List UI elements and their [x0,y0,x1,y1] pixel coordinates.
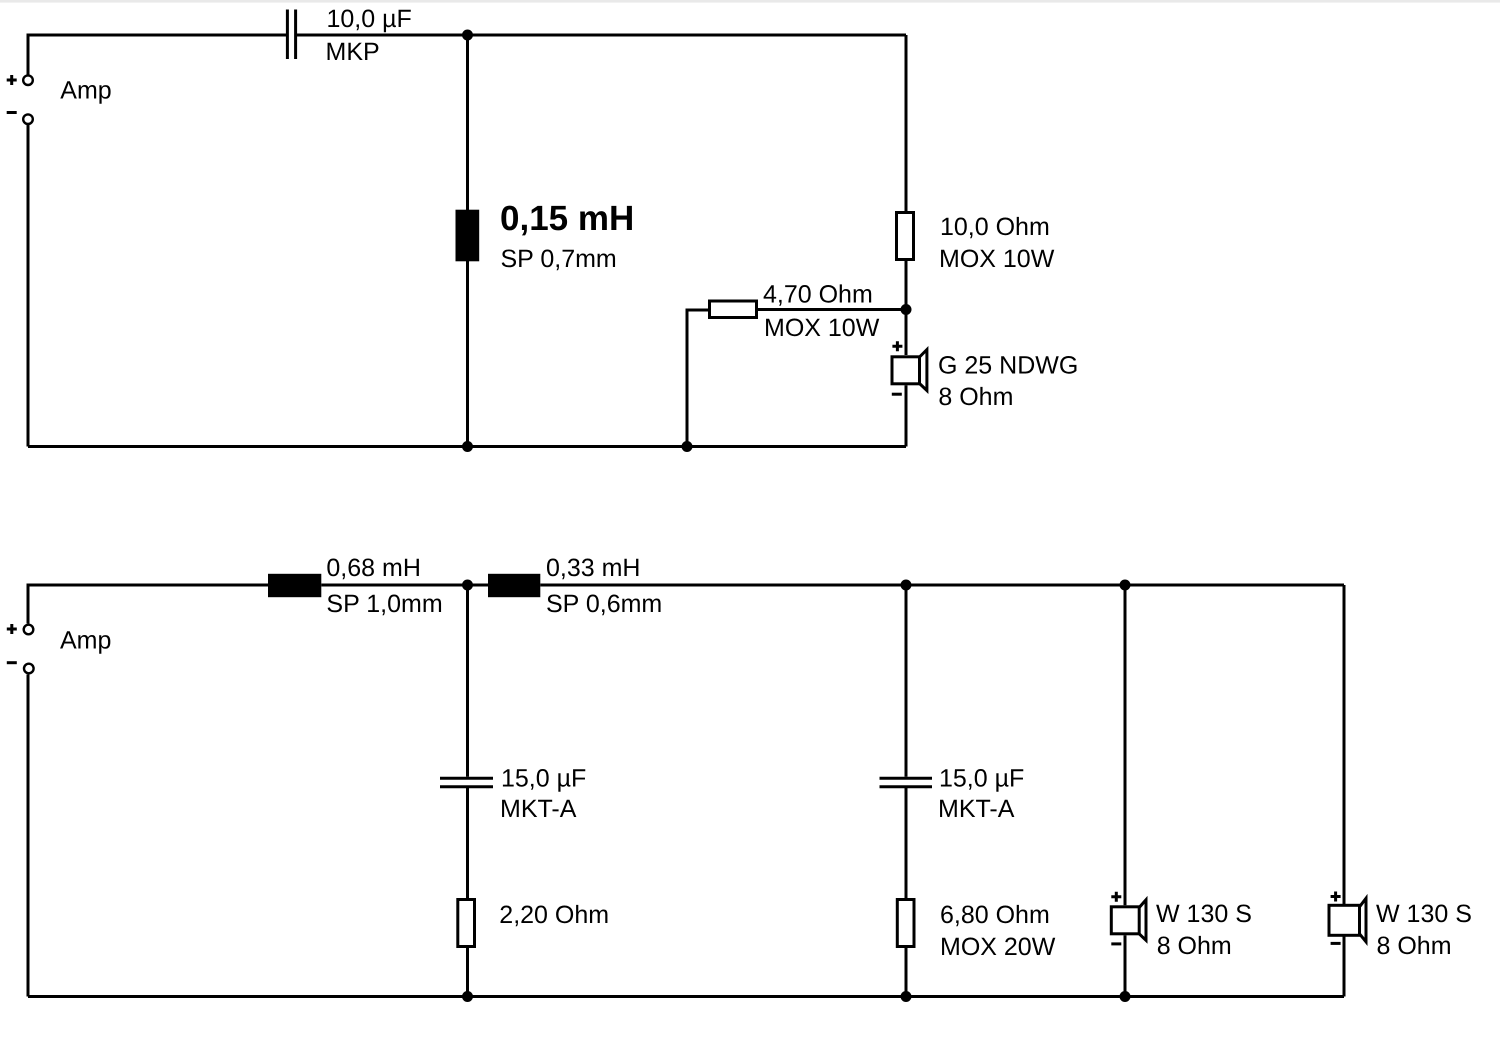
speaker LS3 W 130 S [1329,898,1366,942]
inductor L3 body [488,574,540,597]
svg-text:Amp: Amp [60,77,111,105]
Amp label (top circuit) [60,77,111,105]
wire bottom rail (bottom circuit) [28,995,1344,998]
svg-text:8 Ohm: 8 Ohm [938,383,1013,411]
speaker LS1 minus polarity mark [892,393,902,396]
svg-text:MOX 10W: MOX 10W [939,245,1055,273]
speaker LS1 G 25 NDWG [892,350,927,391]
wire left vertical (bottom circuit) [27,675,30,997]
Amp label (bottom circuit) [60,626,111,654]
wire top-left horizontal (amp + to capacitor C1) [28,35,286,75]
wire R3 to bottom rail [466,948,469,997]
svg-text:SP 1,0mm: SP 1,0mm [326,590,442,618]
resistor R4 body [897,900,914,947]
amp negative terminal (bottom circuit) [7,663,34,674]
R1 value label 10,0 Ohm MOX 10W [939,213,1055,273]
svg-text:SP 0,6mm: SP 0,6mm [546,590,662,618]
speaker LS3 minus polarity mark [1331,942,1341,945]
L3 value label 0,33 mH SP 0,6mm [546,554,662,618]
wire L3 to right end of top rail [540,584,1344,587]
svg-text:8 Ohm: 8 Ohm [1157,932,1232,960]
svg-text:0,15 mH: 0,15 mH [500,199,634,238]
wire right vertical (top rail to speaker LS3) [1343,585,1346,905]
wire C2 to resistor R3 [466,788,469,898]
amp negative terminal [7,113,33,124]
resistor R1 body [897,213,914,260]
svg-text:MOX 10W: MOX 10W [764,314,880,342]
amp positive terminal [7,75,33,85]
wire L2 to L3 [321,584,488,587]
C1 value label 10,0 uF MKP [326,5,412,66]
svg-text:10,0 Ohm: 10,0 Ohm [940,213,1050,241]
wire R1 to node A [905,261,908,310]
node junction (C2 branch / bottom rail) [462,991,473,1002]
wire inductor L1 branch vertical [466,35,469,447]
amp positive terminal (bottom circuit) [7,624,34,634]
svg-text:0,33 mH: 0,33 mH [546,554,640,582]
svg-text:8 Ohm: 8 Ohm [1377,932,1452,960]
wire bottom rail (top circuit) [28,445,906,448]
speaker LS2 W 130 S [1111,900,1146,941]
wire right branch vertical top (to resistor R1) [905,35,908,211]
svg-text:MKT-A: MKT-A [500,795,577,823]
speaker LS2 minus polarity mark [1111,942,1121,945]
wire speaker LS3 to bottom rail [1343,936,1346,997]
svg-text:0,68 mH: 0,68 mH [326,554,420,582]
node junction (L2 / C2 branch) [462,580,473,591]
node junction (top rail / C3 branch) [901,580,912,591]
svg-text:15,0 µF: 15,0 µF [939,765,1024,793]
R4 value label 6,80 Ohm MOX 20W [940,901,1056,961]
LS1 label G 25 NDWG 8 Ohm [938,352,1078,412]
svg-text:G 25 NDWG: G 25 NDWG [938,352,1078,380]
svg-text:15,0 µF: 15,0 µF [501,765,586,793]
speaker LS3 plus polarity mark [1331,892,1341,902]
svg-text:W 130 S: W 130 S [1376,900,1472,928]
inductor L1 body [456,210,480,262]
R3 value label 2,20 Ohm [499,901,609,929]
resistor R3 body [458,900,475,947]
resistor R2 body [710,301,757,318]
wire R2 to node A [758,308,906,311]
wire R2 branch (down from bottom rail, up and right to resistor R2) [687,310,708,447]
svg-text:MKP: MKP [326,38,380,66]
wire left vertical (amp - to bottom rail) [27,125,30,447]
L1 value label 0,15 mH SP 0,7mm [500,199,634,273]
svg-text:6,80 Ohm: 6,80 Ohm [940,901,1050,929]
capacitor C1 plates [287,10,295,60]
svg-text:2,20 Ohm: 2,20 Ohm [499,901,609,929]
wire C2 branch upper [466,585,469,777]
capacitor C3 plates [880,778,933,787]
LS2 label W 130 S 8 Ohm [1156,900,1252,960]
speaker LS2 plus polarity mark [1111,892,1121,902]
wire node A to speaker LS1 [905,310,908,356]
svg-text:MKT-A: MKT-A [938,795,1015,823]
node junction (C3 branch / bottom rail) [901,991,912,1002]
node junction (R2 branch / bottom rail) [682,441,693,452]
wire speaker LS1 to bottom rail [905,385,908,446]
svg-text:W 130 S: W 130 S [1156,900,1252,928]
wire top horizontal (capacitor C1 to right branch) [297,34,906,37]
svg-text:10,0 µF: 10,0 µF [327,5,412,33]
wire R4 to bottom rail [905,948,908,997]
speaker LS1 plus polarity mark [892,341,902,351]
svg-text:MOX 20W: MOX 20W [940,933,1056,961]
node junction bottom (L1 / bottom rail) [462,441,473,452]
svg-text:Amp: Amp [60,626,111,654]
node A junction (R1 / R2 / speaker) [901,304,912,315]
wire speaker LS2 to bottom rail [1124,935,1127,996]
wire C3 branch upper [905,585,908,777]
wire speaker LS2 branch upper [1124,585,1127,905]
svg-text:4,70 Ohm: 4,70 Ohm [763,281,873,309]
C2 value label 15,0 uF MKT-A [500,765,586,824]
node junction (speaker LS2 / bottom rail) [1120,991,1131,1002]
node junction (top rail / speaker LS2 branch) [1120,580,1131,591]
capacitor C2 plates [440,778,493,787]
R2 value label 4,70 Ohm MOX 10W [763,281,880,343]
node junction top (C1 / L1) [462,30,473,41]
LS3 label W 130 S 8 Ohm [1376,900,1472,960]
C3 value label 15,0 uF MKT-A [938,765,1024,824]
inductor L2 body [268,574,321,597]
svg-text:SP 0,7mm: SP 0,7mm [501,245,617,273]
L2 value label 0,68 mH SP 1,0mm [326,554,442,618]
wire top rail (bottom circuit, amp + through inductors to right) [28,585,268,624]
wire C3 to resistor R4 [905,788,908,898]
